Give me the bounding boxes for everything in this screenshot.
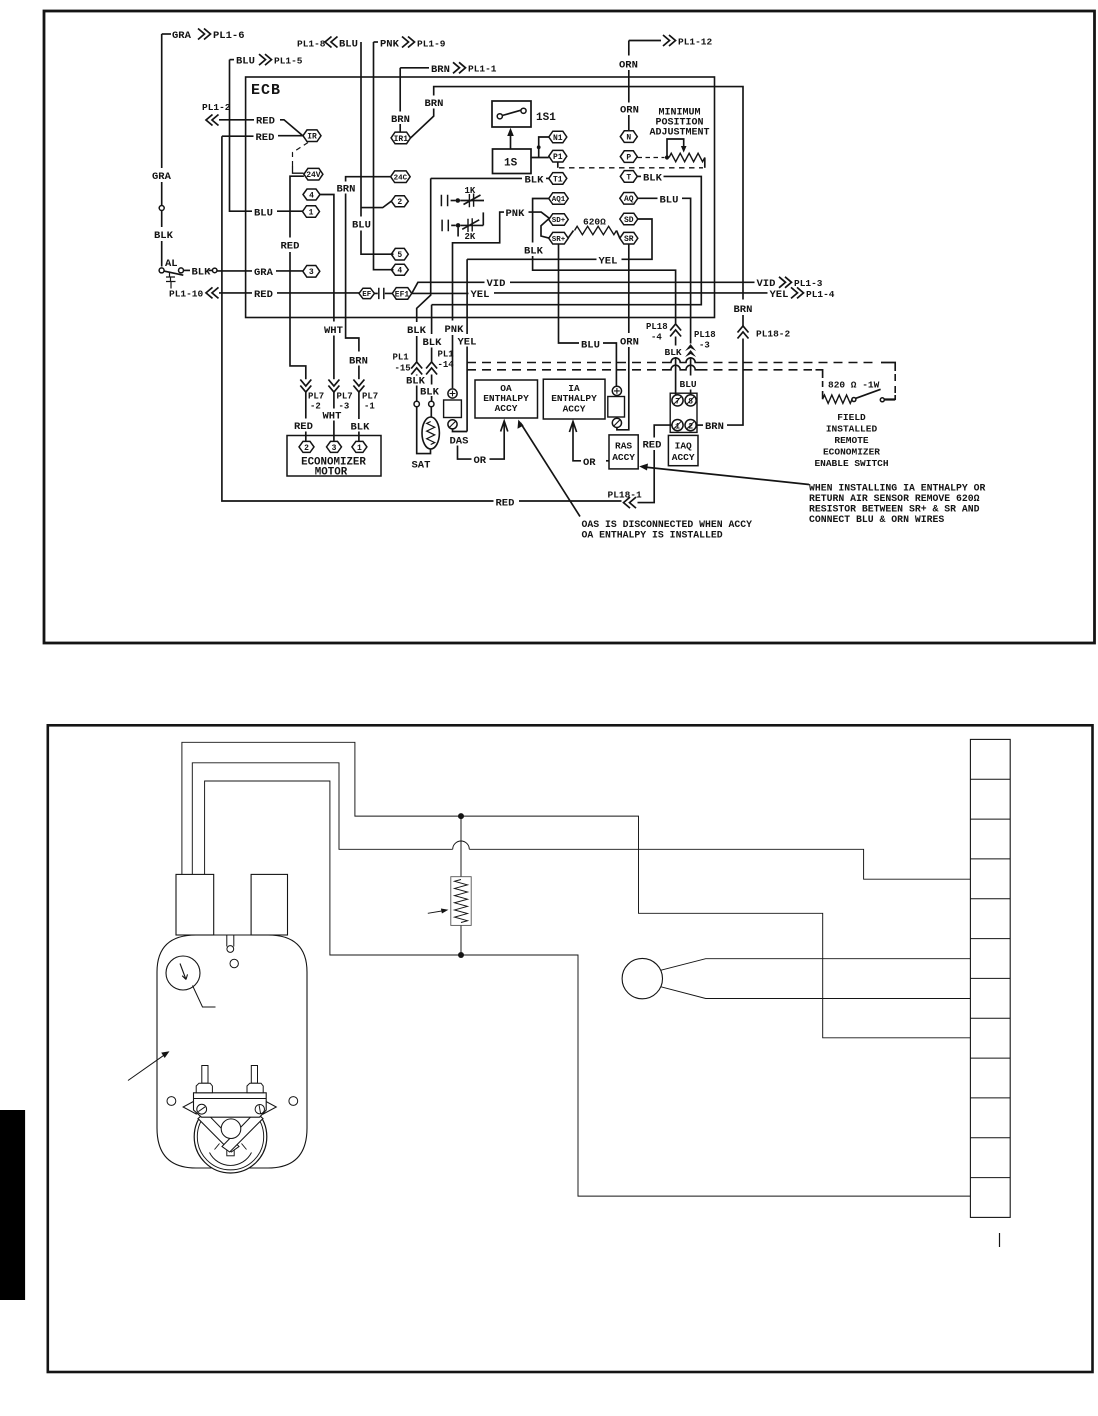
svg-text:PL1-10: PL1-10 bbox=[169, 289, 204, 300]
svg-text:RED: RED bbox=[281, 241, 300, 253]
actuator terminal housing left bbox=[176, 874, 214, 935]
svg-text:SAT: SAT bbox=[412, 460, 431, 472]
svg-text:BLK: BLK bbox=[525, 174, 545, 186]
svg-text:PNK: PNK bbox=[445, 324, 465, 336]
wire VID row EF1 to PL1-3 bbox=[412, 277, 823, 294]
wire RED row2 to left rail bbox=[222, 132, 303, 144]
svg-text:GRA: GRA bbox=[152, 171, 172, 183]
capacitor EF-EF1 bbox=[375, 288, 393, 299]
svg-text:ORN: ORN bbox=[620, 337, 639, 349]
svg-text:IAQ: IAQ bbox=[675, 441, 692, 452]
svg-text:2: 2 bbox=[304, 444, 309, 453]
wire OR to IA arrow bbox=[569, 422, 609, 469]
svg-text:YEL: YEL bbox=[599, 255, 618, 267]
motor terminal 1 hexagon bbox=[352, 441, 367, 452]
svg-text:1: 1 bbox=[357, 444, 362, 453]
node SD+ hexagon bbox=[549, 214, 569, 226]
svg-text:SD+: SD+ bbox=[552, 217, 566, 225]
svg-text:BLK: BLK bbox=[643, 172, 663, 184]
svg-text:BRN: BRN bbox=[734, 304, 753, 316]
node AQ hexagon bbox=[620, 193, 638, 205]
svg-text:ACCY: ACCY bbox=[495, 403, 518, 414]
svg-text:820 Ω -1W: 820 Ω -1W bbox=[828, 380, 880, 391]
node circle on GRA rail bbox=[159, 206, 164, 211]
svg-text:620Ω: 620Ω bbox=[583, 217, 606, 228]
svg-text:GRA: GRA bbox=[172, 30, 192, 42]
bump dashed over PL18-3 wire bbox=[683, 358, 699, 370]
svg-text:PL1-3: PL1-3 bbox=[794, 278, 823, 289]
svg-text:AQ: AQ bbox=[624, 195, 634, 204]
svg-text:BLK: BLK bbox=[524, 246, 544, 258]
svg-text:ENTHALPY: ENTHALPY bbox=[551, 393, 597, 404]
node 3 hexagon bbox=[303, 266, 320, 278]
node N1 hexagon bbox=[549, 131, 567, 143]
node IR hexagon bbox=[303, 130, 321, 142]
wire bracket SD+ SR+ bbox=[541, 218, 549, 238]
svg-text:24V: 24V bbox=[306, 171, 321, 180]
wire BRN IR1 to PL18-2 and terminal 2 bbox=[411, 87, 791, 433]
node 24C hexagon bbox=[391, 171, 411, 183]
svg-text:WHT: WHT bbox=[324, 325, 343, 337]
svg-text:PL1-4: PL1-4 bbox=[806, 289, 835, 300]
svg-text:BLK: BLK bbox=[192, 267, 212, 279]
contact pin SAT left bbox=[414, 401, 419, 406]
wire AQ1 BLK to PL18-4 and terminal 7 bbox=[524, 199, 682, 395]
wire BRN PL1-1 to IR1 bbox=[391, 62, 497, 132]
svg-text:BRN: BRN bbox=[705, 421, 724, 433]
svg-text:ORN: ORN bbox=[620, 105, 639, 117]
box IAQ ACCY bbox=[668, 435, 698, 465]
potentiometer circle with leads bbox=[622, 958, 970, 998]
svg-text:ECONOMIZER: ECONOMIZER bbox=[823, 447, 880, 458]
svg-text:ADJUSTMENT: ADJUSTMENT bbox=[649, 128, 709, 139]
wire ORN to PL1-12 and N bbox=[619, 35, 713, 131]
node 1 hexagon bbox=[303, 206, 320, 218]
svg-text:P1: P1 bbox=[553, 153, 563, 162]
wire 1S to N1 P1 bbox=[531, 137, 549, 158]
node SD hexagon bbox=[620, 213, 638, 225]
svg-text:ENABLE SWITCH: ENABLE SWITCH bbox=[814, 458, 888, 469]
wire SR+ BLU to RAS plus bbox=[559, 244, 617, 386]
svg-text:YEL: YEL bbox=[770, 289, 789, 301]
node 4 hexagon left bbox=[303, 189, 320, 200]
svg-text:INSTALLED: INSTALLED bbox=[826, 424, 878, 435]
wire AQ BLU to PL18-3 and terminal 8 bbox=[638, 194, 716, 394]
terminal strip bbox=[970, 739, 1010, 1217]
wire RED rail to PL18-1 bbox=[222, 136, 622, 509]
bracket screw left bbox=[197, 1104, 207, 1114]
contact 2K bbox=[442, 212, 483, 242]
potentiometer min position adjustment bbox=[638, 139, 705, 168]
pump bolt left bbox=[196, 1066, 212, 1093]
label MINIMUM POSITION ADJUSTMENT bbox=[649, 108, 709, 139]
node 24V hexagon bbox=[304, 168, 323, 180]
dashed field wiring line upper bbox=[467, 363, 895, 400]
sensor SAT bbox=[412, 407, 440, 472]
svg-text:SD: SD bbox=[624, 216, 634, 225]
bump dashed over PL18-4 wire bbox=[668, 358, 683, 370]
svg-text:4: 4 bbox=[397, 267, 402, 276]
svg-text:N1: N1 bbox=[553, 134, 563, 143]
svg-text:P: P bbox=[626, 153, 631, 162]
node 4 hexagon right bbox=[391, 264, 408, 275]
pump wheel bbox=[194, 1100, 267, 1173]
wire W3 actuator to terminal strip bbox=[205, 781, 971, 1196]
svg-text:1S1: 1S1 bbox=[536, 112, 556, 124]
svg-text:1K: 1K bbox=[465, 186, 476, 196]
svg-text:CONNECT BLU & ORN WIRES: CONNECT BLU & ORN WIRES bbox=[809, 514, 944, 525]
node circle after BLK bbox=[212, 268, 217, 273]
svg-text:RETURN AIR SENSOR REMOVE 620Ω: RETURN AIR SENSOR REMOVE 620Ω bbox=[809, 493, 980, 504]
svg-text:PL7: PL7 bbox=[308, 392, 324, 402]
wire DAS YEL jog bbox=[453, 259, 477, 431]
actuator body bbox=[157, 935, 307, 1168]
svg-text:VID: VID bbox=[487, 278, 506, 290]
svg-text:PL1: PL1 bbox=[393, 353, 410, 363]
svg-text:-2: -2 bbox=[310, 402, 321, 412]
node EF hexagon bbox=[359, 288, 375, 299]
svg-text:MOTOR: MOTOR bbox=[315, 467, 348, 479]
note OAS IS DISCONNECTED with arrow to OA box bbox=[518, 420, 753, 541]
box IA ENTHALPY ACCY bbox=[543, 379, 605, 419]
svg-text:BLU: BLU bbox=[339, 39, 358, 51]
panel 2 border frame bbox=[48, 725, 1093, 1372]
wire branch to node 2 bbox=[361, 201, 391, 207]
svg-text:PL7: PL7 bbox=[337, 392, 353, 402]
svg-text:T: T bbox=[626, 173, 631, 182]
bracket arrow left bbox=[183, 1100, 196, 1114]
wire WHT node4 to motor 3 bbox=[320, 195, 353, 442]
junction dot lower bbox=[458, 952, 464, 958]
svg-text:PL18-2: PL18-2 bbox=[756, 329, 791, 340]
svg-text:T1: T1 bbox=[553, 175, 563, 184]
wire T1 BLK down to SAT left bbox=[393, 174, 549, 401]
svg-text:BLU: BLU bbox=[352, 220, 371, 232]
junction dot upper bbox=[458, 813, 464, 819]
node N hexagon bbox=[620, 131, 637, 143]
node T1 hexagon bbox=[549, 173, 567, 185]
svg-text:ACCY: ACCY bbox=[612, 452, 635, 463]
svg-text:SR: SR bbox=[624, 235, 634, 244]
svg-text:PL18: PL18 bbox=[694, 330, 716, 340]
svg-text:OR: OR bbox=[474, 455, 487, 467]
svg-text:-15: -15 bbox=[395, 364, 411, 374]
node T hexagon bbox=[620, 171, 637, 183]
wire W2 actuator to terminal strip bbox=[192, 763, 970, 879]
svg-text:PL1-6: PL1-6 bbox=[213, 30, 245, 42]
svg-text:1: 1 bbox=[309, 208, 314, 217]
svg-text:FIELD: FIELD bbox=[837, 412, 866, 423]
resistor 820 ohm field switch bbox=[823, 380, 896, 404]
node 5 hexagon bbox=[391, 248, 408, 260]
actuator terminal housing right bbox=[251, 874, 287, 935]
wire SD YEL row bbox=[467, 219, 652, 267]
svg-text:BLU: BLU bbox=[660, 194, 679, 206]
svg-text:PNK: PNK bbox=[380, 39, 400, 51]
wire PL1-10 RED to EF bbox=[169, 287, 359, 300]
label GRA on rail bbox=[152, 171, 172, 183]
node SR+ hexagon bbox=[549, 232, 569, 244]
svg-text:BRN: BRN bbox=[425, 98, 444, 110]
wire PNK PL1-9 down to node 4 bbox=[374, 37, 446, 270]
wire W1 actuator to terminal strip bbox=[182, 742, 971, 1038]
bracket screw right bbox=[255, 1105, 264, 1114]
svg-text:VID: VID bbox=[757, 278, 776, 290]
label BLK on rail bbox=[154, 230, 174, 242]
bracket arrow right bbox=[263, 1100, 276, 1114]
svg-text:BLK: BLK bbox=[407, 325, 427, 337]
svg-text:WHEN INSTALLING IA ENTHALPY OR: WHEN INSTALLING IA ENTHALPY OR bbox=[809, 483, 985, 494]
svg-text:BLK: BLK bbox=[420, 387, 440, 399]
svg-text:PNK: PNK bbox=[506, 208, 526, 220]
relay 1S bbox=[493, 149, 532, 174]
switch 1S1 bbox=[492, 101, 556, 127]
svg-text:3: 3 bbox=[309, 268, 314, 277]
node P1 hexagon bbox=[549, 150, 567, 162]
svg-text:ACCY: ACCY bbox=[672, 452, 695, 463]
box OA ENTHALPY ACCY bbox=[475, 380, 538, 418]
node EF1 hexagon bbox=[392, 288, 412, 300]
wire T BLK down to SAT right bbox=[420, 172, 701, 401]
svg-text:AQ1: AQ1 bbox=[552, 196, 566, 204]
box RAS ACCY bbox=[609, 435, 638, 469]
svg-text:EF1: EF1 bbox=[395, 290, 410, 299]
svg-text:4: 4 bbox=[309, 191, 314, 200]
note WHEN INSTALLING with arrow to RAS bbox=[639, 464, 985, 526]
resistor 620 ohm SR+ to SR bbox=[568, 217, 620, 239]
svg-text:24C: 24C bbox=[394, 174, 408, 182]
page edge black tab bbox=[0, 1110, 25, 1300]
pump bracket bbox=[194, 1093, 267, 1117]
svg-text:5: 5 bbox=[397, 251, 402, 260]
svg-text:PL1-9: PL1-9 bbox=[417, 39, 446, 50]
pump wheel arm right bbox=[222, 1112, 263, 1152]
svg-text:BLK: BLK bbox=[154, 230, 174, 242]
actuator dial bbox=[166, 956, 216, 1007]
svg-text:BRN: BRN bbox=[431, 64, 450, 76]
actuator screw hole left bbox=[167, 1097, 176, 1106]
wire SR ORN to RAS minus bbox=[617, 244, 639, 430]
svg-text:-1: -1 bbox=[364, 402, 375, 412]
svg-text:BLU: BLU bbox=[254, 208, 273, 220]
svg-text:2: 2 bbox=[397, 198, 402, 207]
svg-text:OA ENTHALPY IS INSTALLED: OA ENTHALPY IS INSTALLED bbox=[582, 530, 723, 541]
svg-text:BLU: BLU bbox=[680, 379, 697, 390]
svg-text:N: N bbox=[626, 133, 631, 142]
svg-text:-4: -4 bbox=[651, 333, 662, 343]
svg-text:OAS IS DISCONNECTED WHEN ACCY: OAS IS DISCONNECTED WHEN ACCY bbox=[582, 519, 753, 530]
tick mark below strip bbox=[999, 1233, 1001, 1247]
node IR1 hexagon bbox=[391, 132, 411, 144]
label ECB bbox=[251, 82, 281, 99]
contact 1K bbox=[441, 186, 484, 207]
node AQ1 hexagon bbox=[549, 193, 569, 205]
actuator screw hole right bbox=[289, 1097, 298, 1106]
dashed field wiring line lower bbox=[467, 370, 823, 399]
svg-text:BLK: BLK bbox=[665, 347, 682, 358]
svg-text:OR: OR bbox=[583, 457, 596, 469]
wire PNK to SD+ and DAS plus bbox=[445, 208, 550, 388]
wire BLU PL1-8 down to node 5 bbox=[297, 37, 394, 255]
svg-text:AL: AL bbox=[165, 258, 178, 270]
arrow 1S to 1S1 bbox=[507, 128, 514, 149]
svg-text:ECB: ECB bbox=[251, 82, 281, 99]
dashed wire P1 to potentiometer bbox=[558, 162, 703, 168]
motor terminal 2 hexagon bbox=[299, 441, 314, 452]
svg-text:2K: 2K bbox=[465, 232, 476, 242]
svg-text:WHT: WHT bbox=[323, 411, 342, 423]
panel 1 border frame bbox=[44, 11, 1095, 643]
svg-text:YEL: YEL bbox=[471, 289, 490, 301]
svg-text:RAS: RAS bbox=[615, 441, 632, 452]
svg-text:PL18: PL18 bbox=[646, 322, 668, 332]
junction dot 1S node bbox=[537, 145, 541, 149]
label FIELD INSTALLED REMOTE ECONOMIZER ENABLE SWITCH bbox=[814, 412, 888, 469]
svg-text:BLK: BLK bbox=[351, 422, 371, 434]
wire GRA rail to PL1-6 bbox=[162, 29, 245, 267]
svg-text:RED: RED bbox=[254, 289, 273, 301]
svg-text:PL1-12: PL1-12 bbox=[678, 37, 713, 48]
svg-text:PL7: PL7 bbox=[362, 392, 378, 402]
ECB board outline bbox=[246, 77, 715, 318]
svg-text:BLK: BLK bbox=[423, 337, 443, 349]
box ECONOMIZER MOTOR bbox=[287, 436, 381, 479]
wire BLU PL1-5 to node 1 bbox=[230, 54, 303, 219]
svg-text:RED: RED bbox=[496, 497, 515, 509]
wire OR DAS to OA arrow bbox=[458, 421, 508, 467]
svg-text:3: 3 bbox=[332, 444, 337, 453]
wire BLK circle to GRA label bbox=[217, 267, 303, 279]
resistor R vertical with callout arrow bbox=[428, 816, 471, 955]
svg-text:REMOTE: REMOTE bbox=[834, 435, 869, 446]
wire PL1-2 RED row1 to IR bbox=[202, 102, 303, 136]
svg-text:PL1-5: PL1-5 bbox=[274, 55, 303, 66]
node 2 hexagon bbox=[391, 196, 408, 207]
svg-text:IR1: IR1 bbox=[394, 135, 409, 144]
svg-text:IR: IR bbox=[307, 133, 317, 142]
pump bolt right bbox=[247, 1066, 263, 1093]
actuator small hole bbox=[230, 959, 238, 967]
svg-text:RED: RED bbox=[294, 421, 313, 433]
motor terminal 3 hexagon bbox=[327, 441, 342, 452]
callout arrow to actuator bbox=[128, 1051, 170, 1080]
pump wheel hub bbox=[221, 1119, 241, 1139]
wire terminal 1 RED to PL18-1 bbox=[608, 425, 672, 508]
switch AL bbox=[159, 258, 183, 289]
terminal block 7 8 1 2 bbox=[670, 393, 697, 432]
node P hexagon bbox=[620, 151, 637, 163]
svg-text:PL18-1: PL18-1 bbox=[608, 490, 643, 501]
svg-text:ORN: ORN bbox=[619, 60, 638, 72]
svg-text:RED: RED bbox=[643, 440, 662, 452]
svg-text:-3: -3 bbox=[699, 341, 710, 351]
svg-text:BLU: BLU bbox=[236, 56, 255, 68]
node SR hexagon bbox=[620, 232, 638, 244]
svg-text:1S: 1S bbox=[504, 158, 518, 170]
dashed link IR to 24V bbox=[293, 143, 309, 174]
svg-text:ACCY: ACCY bbox=[563, 404, 586, 415]
wire AL to node 3 bbox=[183, 267, 212, 279]
wire RED 24V to economizer motor 2 bbox=[281, 176, 325, 441]
svg-text:EF: EF bbox=[362, 291, 372, 299]
svg-text:DAS: DAS bbox=[450, 436, 469, 448]
svg-text:GRA: GRA bbox=[254, 267, 274, 279]
svg-text:PL1-1: PL1-1 bbox=[468, 64, 497, 75]
svg-text:PL1-2: PL1-2 bbox=[202, 102, 231, 113]
pump wheel arm left bbox=[198, 1112, 239, 1152]
svg-text:RED: RED bbox=[256, 132, 275, 144]
svg-text:BLU: BLU bbox=[581, 339, 600, 351]
svg-text:SR+: SR+ bbox=[552, 236, 566, 244]
actuator keyhole slot bbox=[227, 935, 234, 952]
wire BRN 24C to motor 1 bbox=[337, 177, 391, 442]
sensor DAS plug bbox=[444, 389, 469, 448]
svg-text:RESISTOR BETWEEN SR+ & SR AND: RESISTOR BETWEEN SR+ & SR AND bbox=[809, 504, 980, 515]
svg-text:RED: RED bbox=[256, 116, 275, 128]
svg-text:PL1-8: PL1-8 bbox=[297, 39, 326, 50]
contact pin SAT right bbox=[429, 401, 434, 406]
sensor RAS plug bbox=[608, 386, 625, 427]
wire YEL row to PL1-4 bbox=[412, 287, 835, 300]
